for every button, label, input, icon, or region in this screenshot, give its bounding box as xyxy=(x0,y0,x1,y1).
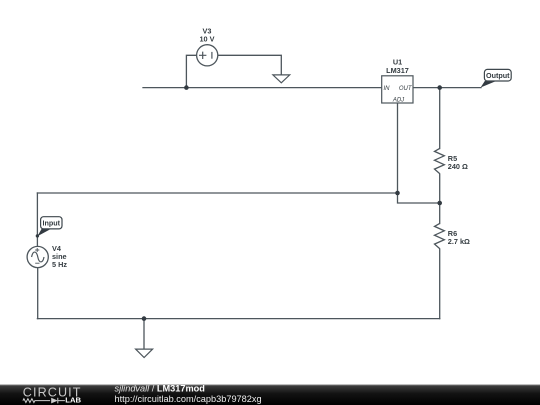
junction: input net joins ADJ wire xyxy=(395,191,400,196)
Output flag pointer xyxy=(481,81,497,88)
svg-text:http://circuitlab.com/capb3b79: http://circuitlab.com/capb3b79782xg xyxy=(115,394,262,404)
wire: R5 bottom to node between R5 and R6 xyxy=(439,174,441,203)
V3 minus sign (rotated) xyxy=(211,52,213,59)
svg-text:5 Hz: 5 Hz xyxy=(52,260,67,269)
wire: U1 OUT to Output flag xyxy=(413,87,481,89)
svg-text:10 V: 10 V xyxy=(199,34,214,43)
resistor R6 zigzag xyxy=(435,223,445,248)
junction: Input flag attach point xyxy=(36,234,39,237)
wire: input net down to V4 plus terminal xyxy=(36,193,38,247)
voltage source V4 body xyxy=(27,246,48,267)
wire: OUT node down to R5 top xyxy=(439,88,441,149)
wire: V4 minus terminal down to bottom bus xyxy=(37,268,39,319)
wire: input net horizontal run to ADJ wire xyxy=(37,192,397,194)
V4 minus sign xyxy=(35,262,39,264)
svg-text:ADJ: ADJ xyxy=(392,97,405,103)
CircuitLab logo resistor-diode drawing xyxy=(23,398,65,404)
wire: R6 bottom to bottom bus xyxy=(439,249,441,319)
svg-text:240 Ω: 240 Ω xyxy=(448,162,468,171)
V4 sine wave xyxy=(32,252,44,262)
svg-text:Output: Output xyxy=(486,71,510,80)
resistor R5 zigzag xyxy=(435,148,445,173)
op-amp style box U1 LM317 xyxy=(382,76,413,103)
wire: V3 negative lead to ground xyxy=(218,55,281,74)
junction: ground on bottom bus xyxy=(142,316,147,321)
ground symbol at V3 xyxy=(273,75,290,83)
wire: bottom bus xyxy=(37,318,439,320)
svg-text:IN: IN xyxy=(384,86,391,92)
svg-text:LM317: LM317 xyxy=(386,66,409,75)
voltage source V3 body xyxy=(197,45,218,66)
footer bar xyxy=(0,385,540,405)
wire: U1 ADJ down and right to R5/R6 node xyxy=(398,103,440,203)
junction: OUT node at R5 xyxy=(437,85,442,90)
Input flag pointer xyxy=(37,229,51,236)
svg-text:2.7 kΩ: 2.7 kΩ xyxy=(448,237,470,246)
svg-text:OUT: OUT xyxy=(399,86,413,92)
junction: R5/R6/ADJ node xyxy=(437,201,442,206)
wire: ground stem on bottom bus xyxy=(143,319,145,349)
svg-text:LAB: LAB xyxy=(65,395,81,404)
junction: V3 lead on top bus xyxy=(184,85,189,90)
V3 plus sign xyxy=(199,52,206,59)
Input flag box xyxy=(41,217,62,229)
svg-text:Input: Input xyxy=(43,219,61,228)
wire: V3 positive lead down to top bus xyxy=(186,55,196,87)
V4 plus sign xyxy=(35,248,39,252)
svg-text:sjlindvall / LM317mod: sjlindvall / LM317mod xyxy=(115,384,205,394)
wire: R5/R6 node down to R6 top xyxy=(439,203,441,224)
Output flag box xyxy=(484,69,511,81)
ground symbol at bottom bus xyxy=(136,349,153,357)
wire: top bus from left stub to U1 IN pin xyxy=(143,87,382,89)
